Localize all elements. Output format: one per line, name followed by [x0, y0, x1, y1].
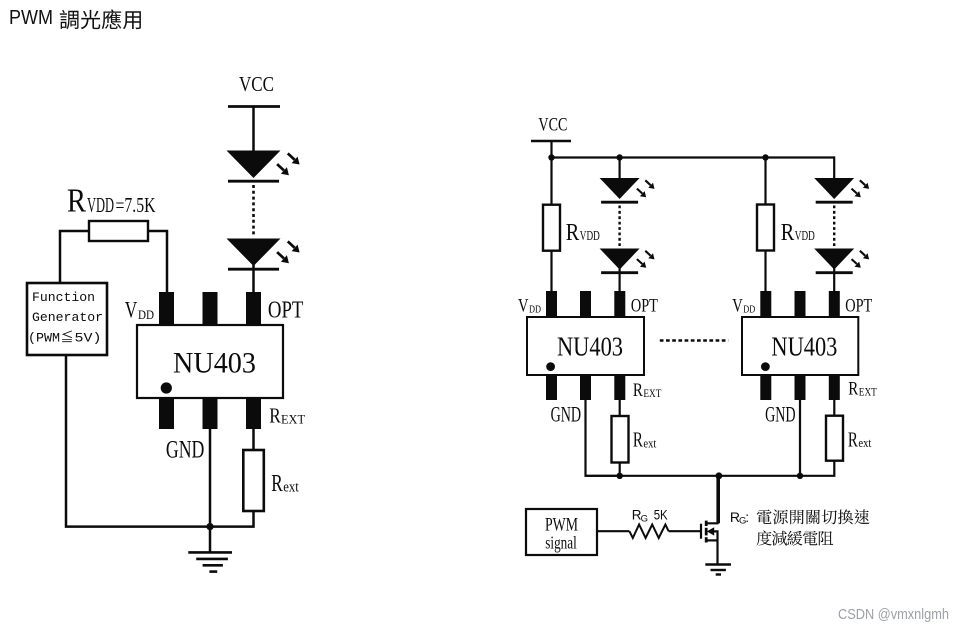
annotation label RG:	[730, 509, 749, 527]
U3 pin VDD (top-left)	[760, 291, 771, 317]
node dot: right RVDD tap	[762, 154, 768, 160]
wire Rext bottom to ground rail	[210, 511, 254, 527]
resistor Rext (U3, vertical box)	[826, 416, 843, 461]
U2 pin GND (bottom-middle)	[580, 375, 591, 400]
U1 pin VDD (top-left)	[159, 292, 174, 325]
svg-text:R: R	[633, 428, 643, 452]
U1 pin bottom-left (n.c.)	[159, 398, 174, 429]
LED D5 (anode top, cathode bottom)	[814, 178, 854, 202]
watermark CSDN @vmxnlgmh	[838, 607, 949, 623]
wire Rext (U2) bottom to rail	[619, 463, 621, 476]
svg-text:EXT: EXT	[643, 388, 661, 400]
U3 label VDD	[732, 296, 755, 317]
U1 label REXT	[269, 404, 305, 428]
wire VCC to top rail	[550, 141, 552, 158]
wire rail corner down to LED string (U3)	[833, 156, 835, 178]
wire RVDD right terminal to VDD pin	[148, 231, 167, 293]
svg-text:R: R	[271, 471, 283, 497]
svg-text:signal: signal	[545, 533, 577, 553]
wire Rext (U3) bottom to rail corner	[800, 461, 834, 476]
LED D2 (anode top, cathode bottom)	[227, 239, 281, 270]
U2 label OPT	[631, 296, 658, 317]
U3 label OPT	[845, 296, 872, 317]
svg-text:R: R	[848, 379, 858, 400]
U2 label GND	[551, 402, 582, 427]
label RVDD (U2)	[566, 220, 600, 246]
svg-text:V: V	[518, 296, 529, 317]
svg-text:Generator: Generator	[32, 310, 103, 325]
dotted link between U2 and U3 (repeated stages)	[660, 339, 728, 341]
svg-text:R: R	[848, 427, 858, 451]
U2 pin OPT (top-right)	[614, 291, 625, 317]
Q1 drain lead	[706, 476, 717, 524]
svg-text:VDD: VDD	[795, 228, 815, 243]
label RVDD (U3)	[781, 220, 815, 246]
svg-text:VCC: VCC	[538, 115, 567, 136]
svg-text:R: R	[269, 404, 281, 428]
svg-text:CSDN @vmxnlgmh: CSDN @vmxnlgmh	[838, 607, 949, 623]
U1 pin GND (bottom-middle)	[203, 398, 218, 429]
LED D2 light-emission arrows	[277, 241, 300, 263]
svg-text::: :	[745, 509, 749, 525]
svg-text:EXT: EXT	[281, 412, 305, 427]
U3 pin GND (bottom-middle)	[795, 375, 806, 400]
U3 label GND	[765, 402, 796, 427]
LED D3 (anode top, cathode bottom)	[600, 178, 640, 202]
ground symbol (MOSFET source)	[705, 565, 731, 575]
U1 text NU403	[173, 347, 256, 380]
U3 text NU403	[771, 332, 837, 362]
svg-text:=7.5K: =7.5K	[116, 193, 156, 217]
resistor RVDD (U3, vertical box)	[757, 205, 774, 251]
wire rail down to resistor RVDD (U3)	[764, 158, 766, 205]
bottom common rail wire	[586, 475, 801, 477]
svg-text:ext: ext	[858, 435, 871, 450]
op IC U1 NU403 body	[137, 325, 283, 398]
net label VCC (right circuit)	[538, 115, 567, 136]
label RVDD=7.5K	[67, 183, 156, 220]
resistor Rext (left, vertical box)	[243, 450, 263, 511]
svg-text:R: R	[566, 220, 580, 246]
LED D4 (anode top, cathode bottom)	[600, 249, 640, 273]
resistor Rext (U2, vertical box)	[612, 416, 629, 463]
Q1 body arrow (points into channel)	[707, 527, 714, 535]
svg-text:V: V	[125, 298, 138, 323]
PWM signal text	[545, 515, 578, 552]
svg-text:ext: ext	[643, 435, 656, 450]
svg-text:R: R	[67, 183, 86, 220]
wire RVDD left terminal to Function Generator	[60, 231, 89, 284]
LED D5 light-emission arrows	[852, 180, 870, 197]
U2 pin VDD (top-left)	[546, 291, 557, 317]
svg-text:NU403: NU403	[771, 332, 837, 362]
U2 pin REXT (bottom-right)	[614, 375, 625, 400]
U2 label REXT	[633, 380, 662, 401]
U2 pin bottom-left (n.c.)	[546, 375, 557, 400]
U1 pin REXT (bottom-right)	[246, 398, 261, 429]
resistor RG 5K (zigzag)	[629, 525, 668, 539]
svg-text:PWM: PWM	[9, 6, 53, 29]
U2 pin top-middle (n.c.)	[580, 291, 591, 317]
wire RVDD to U3 VDD pin	[764, 251, 766, 293]
dotted wire (more LEDs, string U2)	[618, 206, 620, 247]
U3 pin-1 marker dot	[761, 362, 770, 371]
svg-text:Function: Function	[32, 290, 95, 305]
LED D4 light-emission arrows	[637, 251, 655, 268]
Function Generator box	[27, 283, 107, 355]
U1 label VDD	[125, 298, 154, 323]
svg-text:R: R	[781, 220, 795, 246]
U3 pin top-middle (n.c.)	[795, 291, 806, 317]
svg-text:OPT: OPT	[631, 296, 658, 317]
wire rail down to LED string (U2)	[618, 158, 620, 179]
annotation text line 2 (度減緩電阻)	[757, 531, 834, 546]
net label VCC (left circuit)	[239, 72, 274, 96]
U3 pin OPT (top-right)	[829, 291, 840, 317]
U3 label REXT	[848, 379, 877, 400]
page title "PWM 調光應用"	[9, 6, 141, 29]
svg-text:DD: DD	[743, 304, 755, 316]
svg-text:EXT: EXT	[859, 387, 877, 399]
svg-text:V: V	[732, 296, 743, 317]
svg-text:R: R	[633, 380, 643, 401]
resistor RVDD (U2, vertical box)	[543, 205, 560, 251]
svg-text:DD: DD	[138, 308, 154, 322]
node dot: left LED string tap	[616, 154, 622, 160]
wire VCC to LED D1 anode	[252, 107, 255, 151]
dotted wire (more LEDs in series, left string)	[252, 185, 255, 236]
U1 pin-1 marker dot	[161, 382, 172, 393]
wire U3 GND pin down to bottom rail	[799, 400, 801, 476]
label Rext (U3)	[848, 427, 872, 451]
svg-text:DD: DD	[529, 304, 541, 316]
wire rail down to MOSFET drain	[718, 476, 720, 524]
node: ground junction dot (left)	[206, 523, 213, 530]
wire junction to ground symbol	[209, 527, 212, 553]
svg-text:GND: GND	[765, 402, 796, 427]
VCC supply bar (left)	[228, 105, 280, 108]
svg-text:GND: GND	[551, 402, 582, 427]
Function Generator text	[28, 290, 103, 346]
svg-text:GND: GND	[166, 437, 205, 464]
wire U1 REXT pin to resistor Rext	[252, 429, 255, 450]
wire RG to MOSFET gate	[669, 530, 700, 532]
transistor Q1 N-MOSFET gate bar	[700, 524, 702, 539]
wire Function Generator output down to ground rail	[66, 355, 210, 527]
IC U2 NU403 body	[527, 317, 644, 375]
svg-text:OPT: OPT	[268, 298, 304, 324]
U3 pin REXT (bottom-right)	[829, 375, 840, 400]
U1 pin OPT (top-right)	[246, 292, 261, 325]
LED D1 (anode top, cathode bottom)	[227, 151, 281, 182]
wire rail down to resistor RVDD (U2)	[550, 158, 552, 205]
wire RVDD to U2 VDD pin	[550, 251, 552, 292]
node dot: Rext U2 junction	[617, 473, 623, 479]
node dot: U3 GND junction	[797, 473, 803, 479]
wire U2 GND pin down to bottom rail	[586, 400, 620, 476]
wire LED D2 cathode to OPT pin	[252, 242, 255, 293]
LED D1 light-emission arrows	[277, 153, 300, 175]
svg-text:ext: ext	[283, 479, 299, 495]
node dot: VCC/rail junction	[548, 154, 554, 160]
PWM signal source box	[526, 509, 597, 555]
VCC supply bar (right)	[531, 140, 571, 142]
Q1 channel segments	[705, 521, 708, 543]
U2 label VDD	[518, 296, 541, 317]
top supply rail wire	[552, 156, 835, 158]
LED D3 light-emission arrows	[637, 180, 655, 197]
wire LED D4 to U2 OPT pin	[618, 251, 620, 292]
LED D6 light-emission arrows	[852, 251, 870, 268]
resistor RVDD=7.5K (horizontal box)	[89, 221, 148, 241]
dotted wire (more LEDs, string U3)	[833, 206, 835, 247]
svg-text:NU403: NU403	[173, 347, 256, 380]
U2 text NU403	[557, 332, 623, 362]
wire LED D6 to U3 OPT pin	[833, 251, 835, 292]
LED D6 (anode top, cathode bottom)	[814, 249, 854, 273]
U1 label OPT	[268, 298, 304, 324]
svg-text:5V): 5V)	[75, 332, 102, 346]
U2 pin-1 marker dot	[546, 362, 555, 371]
node dot: MOSFET drain junction	[716, 472, 723, 479]
IC U3 NU403 body	[742, 317, 858, 375]
svg-text:G: G	[641, 513, 648, 524]
svg-text:VDD: VDD	[580, 228, 600, 243]
ground symbol (left circuit)	[188, 552, 232, 571]
label RG 5K	[632, 507, 668, 524]
svg-text:VCC: VCC	[239, 72, 274, 96]
label Rext (U2)	[633, 428, 657, 452]
wire PWM box to resistor RG	[597, 530, 629, 532]
U3 pin bottom-left (n.c.)	[760, 375, 771, 400]
svg-text:(PWM: (PWM	[28, 332, 60, 346]
label Rext (left)	[271, 471, 299, 497]
wire U2 REXT pin to resistor Rext	[619, 400, 621, 416]
Q1 source/body lead	[706, 531, 717, 564]
U1 pin top-middle (n.c.)	[203, 292, 218, 325]
svg-text:5K: 5K	[654, 507, 668, 522]
svg-text:OPT: OPT	[845, 296, 872, 317]
svg-text:VDD: VDD	[87, 193, 114, 217]
wire U3 REXT pin to resistor Rext	[833, 400, 835, 416]
annotation text line 1 (電源開關切換速)	[757, 509, 870, 524]
U1 label GND	[166, 437, 205, 464]
svg-text:NU403: NU403	[557, 332, 623, 362]
wire U1 GND pin down to ground rail	[209, 429, 212, 527]
